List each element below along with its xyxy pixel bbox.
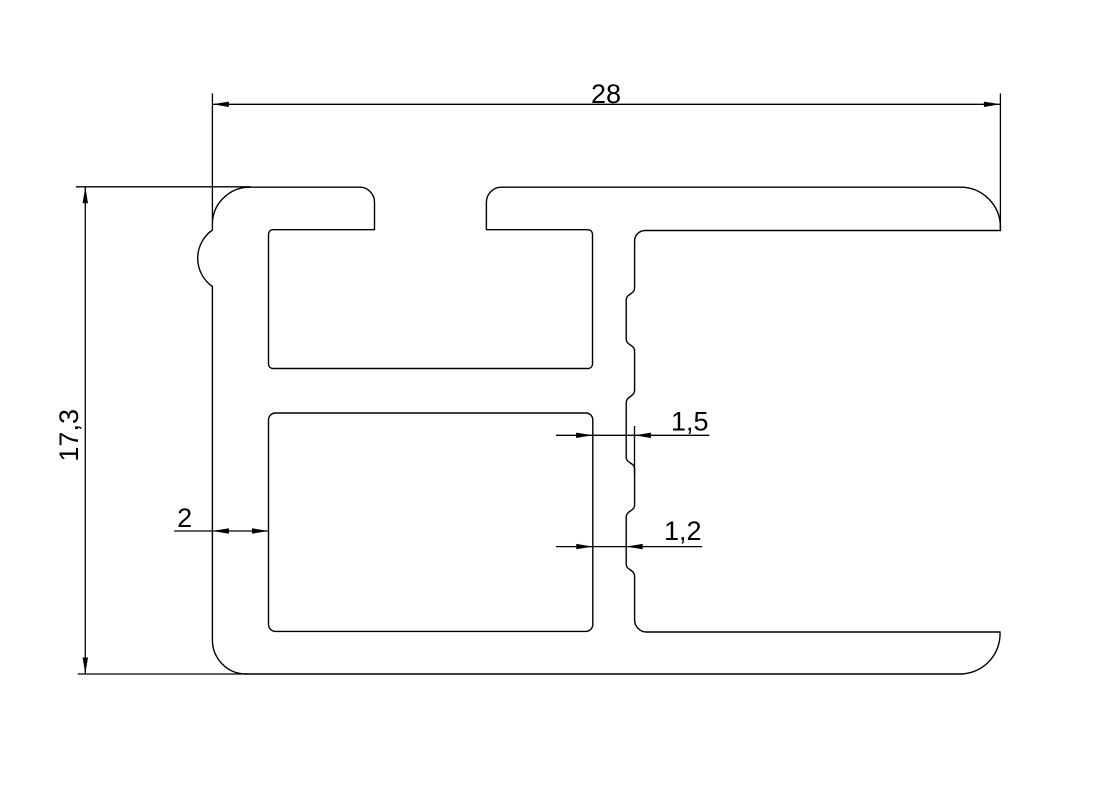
arrowheads dim 2 <box>212 528 229 533</box>
arrowheads dim 1,2 <box>576 544 593 549</box>
dim 17,3 line <box>84 187 86 674</box>
arrowheads dim 28 <box>212 102 229 107</box>
dim 1,5 extension tick <box>634 426 636 474</box>
dim 1,2 line <box>556 546 702 548</box>
svg-text:17,3: 17,3 <box>54 409 84 462</box>
arrowheads dim 1,5 <box>576 433 593 438</box>
profile outer contour <box>198 187 1001 674</box>
dim 28 extension lines <box>211 94 213 222</box>
arrowheads dim 17,3 <box>83 187 88 204</box>
dim 17,3 extension lines <box>76 186 251 188</box>
dim 2 line <box>174 530 268 532</box>
dim 28 line <box>212 103 1000 105</box>
lower cavity <box>269 413 593 631</box>
svg-text:1,5: 1,5 <box>671 407 709 437</box>
svg-text:28: 28 <box>591 79 621 109</box>
dim 1,5 line <box>556 434 709 436</box>
svg-text:2: 2 <box>177 503 192 533</box>
svg-text:1,2: 1,2 <box>664 516 702 546</box>
